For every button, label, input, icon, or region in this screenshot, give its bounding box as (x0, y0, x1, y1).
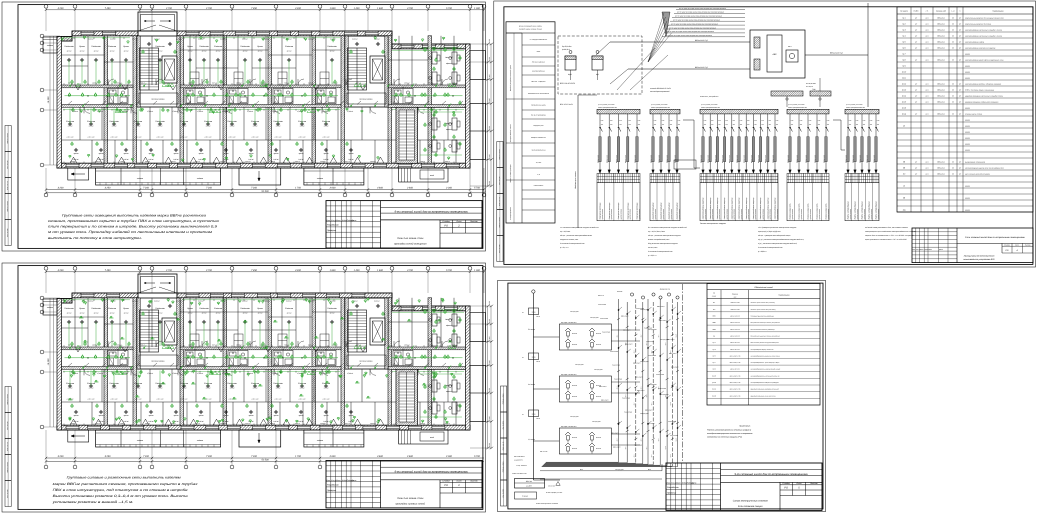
svg-text:ВПЗ-п-кв: ВПЗ-п-кв (598, 295, 604, 297)
svg-text:Лист: Лист (335, 219, 341, 222)
svg-text:Гр 1: Гр 1 (616, 334, 618, 337)
svg-text:линии: линии (711, 296, 716, 298)
svg-text:2,8: 2,8 (401, 87, 404, 89)
feeder cluster C4 (787, 109, 829, 114)
svg-text:ВВГнг 3х2,5: ВВГнг 3х2,5 (666, 155, 668, 163)
svg-text:7 200: 7 200 (143, 455, 149, 458)
svg-text:Электрообогрев квартир этажа №: Электрообогрев квартир этажа №1 (750, 349, 773, 351)
ABP automatic transfer switch U1 (750, 30, 805, 78)
svg-text:1 400: 1 400 (354, 269, 360, 272)
svg-text:Гостиная: Гостиная (64, 307, 74, 310)
commercial entry steps (399, 168, 448, 182)
circuit table C5 (845, 173, 879, 182)
svg-text:выравнивание потенциалов: выравнивание потенциалов (965, 161, 985, 163)
dimension chain right (487, 306, 489, 448)
stair core at 137 (137, 298, 180, 369)
svg-text:ВА47-29: ВА47-29 (596, 344, 601, 346)
svg-text:3 250: 3 250 (105, 187, 111, 190)
stair core at 137 (137, 36, 180, 107)
svg-text:Кухня: Кухня (123, 45, 129, 48)
svg-text:3 250: 3 250 (105, 455, 111, 458)
svg-text:ВВГнг-3х2,5 П16: ВВГнг-3х2,5 П16 (730, 389, 741, 391)
green wiring drops (76, 83, 80, 87)
svg-text:Гр 13: Гр 13 (902, 88, 906, 91)
svg-text:2,80 х 3,20: 2,80 х 3,20 (110, 399, 118, 401)
svg-text:Изм.: Изм. (327, 219, 331, 222)
svg-text:1 000: 1 000 (474, 269, 480, 272)
svg-text:выполнить по потолку в слое шт: выполнить по потолку в слое штукатурки. (48, 236, 142, 240)
svg-text:С16: С16 (791, 120, 794, 122)
svg-text:ВВГнг 3х2,5: ВВГнг 3х2,5 (708, 155, 710, 163)
axis grid left (40, 34, 44, 38)
svg-text:Гр 7: Гр 7 (646, 446, 648, 449)
svg-text:ВВГнг-3х2,5: ВВГнг-3х2,5 (667, 339, 675, 341)
svg-text:марки ВВГнг расчетного сечени: марки ВВГнг расчетного сечения, проложен… (53, 482, 198, 486)
svg-text:лоджия: лоджия (46, 306, 53, 309)
svg-text:N1: N1 (522, 414, 524, 416)
svg-text:Проверил: Проверил (327, 489, 337, 492)
bottom exterior wall with windows (57, 163, 470, 168)
riser floor tap marks (618, 309, 619, 310)
svg-text:С16: С16 (704, 120, 707, 122)
svg-text:51 500: 51 500 (261, 190, 269, 193)
svg-text:Гр 7: Гр 7 (902, 52, 905, 55)
svg-text:2 700: 2 700 (205, 269, 212, 272)
svg-text:2,80 х 3,20: 2,80 х 3,20 (298, 137, 306, 139)
svg-text:кухня: кухня (149, 415, 154, 417)
svg-text:ВВГнг 3х2,5: ВВГнг 3х2,5 (634, 155, 636, 163)
svg-text:ВВГнг-5х10 ГЦ2: ВВГнг-5х10 ГЦ2 (695, 39, 708, 42)
svg-text:Этажные щиты стояка №1 (1-8 эт: Этажные щиты стояка №1 (1-8 этаж) (751, 302, 776, 304)
svg-text:ТхА/В-2 США: ТхА/В-2 США (600, 318, 608, 320)
svg-text:Рн, кВт: Рн, кВт (536, 162, 542, 164)
svg-text:Спальня: Спальня (87, 120, 96, 123)
right balconies (470, 313, 486, 342)
lower annex: porches and loggias (68, 168, 89, 180)
svg-text:ВВГнг 3х2,5: ВВГнг 3х2,5 (658, 155, 660, 163)
partitions upper rooms (74, 298, 76, 347)
svg-text:16А: 16А (870, 124, 872, 126)
svg-text:Гр 15: Гр 15 (902, 100, 906, 103)
vertical riser lines (618, 299, 620, 462)
svg-text:резерв: резерв (964, 149, 970, 151)
sheet frame S1 (2, 2, 486, 251)
svg-text:щитов стояка: щитов стояка (639, 209, 641, 220)
svg-text:кухня: кухня (224, 415, 229, 417)
svg-text:ТхА/В-2 США: ТхА/В-2 США (610, 351, 618, 353)
svg-text:ВВГнг-3х2,5 П16: ВВГнг-3х2,5 П16 (730, 355, 741, 357)
svg-text:Гр 3: Гр 3 (625, 394, 627, 397)
svg-text:2 600: 2 600 (406, 187, 413, 190)
interior bearing walls (104, 298, 108, 425)
svg-text:7 450: 7 450 (105, 269, 111, 272)
svg-text:Спальня: Спальня (87, 382, 96, 385)
long feeder lines to VRU (540, 470, 662, 472)
svg-text:Гостиная: Гостиная (240, 307, 250, 310)
svg-text:2 600: 2 600 (329, 455, 336, 458)
svg-text:2,80 х 3,20: 2,80 х 3,20 (156, 137, 164, 139)
svg-text:2,80 х 3,20: 2,80 х 3,20 (228, 137, 236, 139)
svg-text:Дата: Дата (691, 482, 697, 485)
svg-text:Электрообогреватель промежуточ: Электрообогреватель промежуточной площад (750, 369, 780, 371)
svg-text:ТхА/В-2 США: ТхА/В-2 США (598, 304, 606, 306)
svg-text:Стадия: Стадия (782, 482, 790, 485)
svg-text:Аварийное освещение коридоров: Аварийное освещение коридоров лестничной (750, 389, 779, 391)
svg-text:Спальня: Спальня (285, 45, 294, 48)
svg-text:щитов стояка: щитов стояка (671, 209, 673, 220)
svg-text:резерв: резерв (964, 137, 970, 139)
svg-text:2,80 х 3,20: 2,80 х 3,20 (87, 137, 95, 139)
sheet frame S3 (2, 263, 486, 512)
svg-text:1 000: 1 000 (474, 7, 480, 10)
svg-text:Обозначение линий: Обозначение линий (754, 286, 773, 289)
svg-text:Дата: Дата (938, 249, 943, 251)
svg-text:16А: 16А (662, 124, 664, 126)
lower annex: porches and loggias (68, 430, 89, 442)
svg-text:лоджия: лоджия (136, 439, 143, 442)
svg-text:n: n (960, 11, 961, 13)
svg-text:ВРУ-12-10 УхЛ4: ВРУ-12-10 УхЛ4 (560, 103, 573, 106)
svg-text:16А: 16А (733, 124, 735, 126)
svg-text:5 700: 5 700 (474, 187, 480, 190)
kitchen band line (62, 139, 134, 141)
svg-text:АВВ-5х25 П00: АВВ-5х25 П00 (730, 309, 740, 311)
svg-text:2,80 х 3,20: 2,80 х 3,20 (180, 137, 188, 139)
svg-text:ПВ2 пит. 1-2а[Б] пит.: ПВ2 пит. 1-2а[Б] пит. (531, 81, 546, 83)
svg-text:ВВГнг-3х2,5 П16: ВВГнг-3х2,5 П16 (730, 375, 741, 377)
svg-text:ВВГнг 3х2,5: ВВГнг 3х2,5 (814, 155, 816, 163)
svg-text:Примечание.: Примечание. (739, 425, 751, 428)
svg-text:16А: 16А (863, 124, 865, 126)
svg-text:кухня: кухня (249, 415, 254, 417)
svg-text:Гр 4: Гр 4 (902, 34, 905, 37)
svg-text:Гр 8: Гр 8 (902, 58, 905, 61)
svg-text:ВА47-29: ВА47-29 (572, 333, 577, 335)
svg-text:Гр 4: Гр 4 (641, 334, 643, 337)
svg-text:Автоматические выключатели: Автоматические выключатели (527, 93, 549, 95)
svg-text:Взам. инв. №: Взам. инв. № (7, 181, 9, 190)
svg-text:План 2-го этажа. План: План 2-го этажа. План (397, 237, 424, 240)
svg-text:С16: С16 (870, 120, 873, 122)
svg-text:2,80 х 3,20: 2,80 х 3,20 (251, 399, 259, 401)
svg-text:ВВГнг 3х2,5: ВВГнг 3х2,5 (650, 155, 652, 163)
svg-text:16А: 16А (791, 124, 793, 126)
svg-text:ВВГнг 3х2,5: ВВГнг 3х2,5 (607, 155, 609, 163)
svg-text:Электрообогреватель дверей в п: Электрообогреватель дверей в переоборудо (750, 382, 778, 384)
svg-text:кухня: кухня (199, 415, 204, 417)
right cable journal table (897, 7, 1033, 212)
svg-text:Гр 11: Гр 11 (670, 454, 672, 458)
svg-text:офисн.: офисн. (446, 62, 452, 65)
svg-text:2,80 х 3,20: 2,80 х 3,20 (204, 137, 212, 139)
svg-text:2 700: 2 700 (165, 7, 172, 10)
sheet frame S2 (494, 1, 1036, 267)
svg-text:офисн.: офисн. (446, 390, 452, 393)
svg-text:ВВГнг 3х2,5: ВВГнг 3х2,5 (700, 155, 702, 163)
svg-text:16А: 16А (601, 124, 603, 126)
svg-text:С16: С16 (761, 120, 764, 122)
svg-text:Гр 2в: Гр 2в (902, 112, 906, 115)
svg-text:Распределительный щит этажн. р: Распределительный щит этажн. распределит (751, 322, 781, 324)
svg-text:4 700: 4 700 (407, 269, 413, 272)
svg-text:2,8: 2,8 (193, 87, 196, 89)
svg-text:Лист: Лист (455, 220, 461, 223)
svg-text:Питающий выключатель разводящи: Питающий выключатель разводящих (751, 316, 775, 318)
svg-text:1 800: 1 800 (330, 7, 336, 10)
svg-text:Гр 6: Гр 6 (641, 438, 643, 441)
svg-text:Спальня: Спальня (134, 382, 143, 385)
svg-text:Гр 10: Гр 10 (902, 70, 906, 73)
svg-text:16А: 16А (629, 124, 631, 126)
hall closets upper (190, 72, 199, 85)
svg-text:С16: С16 (809, 120, 812, 122)
svg-text:Гостиная: Гостиная (109, 382, 119, 385)
svg-text:Гр 5: Гр 5 (641, 386, 643, 389)
svg-text:16А: 16А (800, 124, 802, 126)
svg-text:Лестничный выключатель разводя: Лестничный выключатель разводящих (750, 329, 776, 331)
svg-text:2,80 х 3,20: 2,80 х 3,20 (322, 137, 330, 139)
svg-text:Гр 10: Гр 10 (670, 402, 672, 406)
svg-text:План 2-го этажа. План: План 2-го этажа. План (397, 497, 424, 500)
svg-text:2,8: 2,8 (401, 349, 404, 351)
svg-text:С16: С16 (619, 120, 622, 122)
wall tick texture (63, 299, 65, 301)
svg-text:щитов стояка: щитов стояка (655, 209, 657, 220)
svg-text:2 секц. питания: 2 секц. питания (515, 465, 527, 467)
circuit table C1 (597, 173, 640, 182)
svg-text:резерв: резерв (964, 77, 970, 79)
svg-text:16А: 16А (619, 124, 621, 126)
bathroom pods (108, 351, 128, 366)
svg-text:4 600: 4 600 (377, 187, 383, 190)
svg-text:лоджия: лоджия (136, 177, 143, 180)
svg-text:16А: 16А (776, 124, 778, 126)
hall closets upper (190, 334, 199, 347)
svg-text:ТхА/В-2 США: ТхА/В-2 США (624, 411, 632, 413)
svg-text:ВВГнг-3х4 П25: ВВГнг-3х4 П25 (730, 342, 740, 344)
svg-text:ТхА/В-2 США: ТхА/В-2 США (634, 444, 642, 446)
svg-text:Гр 9: Гр 9 (658, 438, 660, 441)
svg-text:Гр 9: Гр 9 (902, 64, 905, 67)
svg-text:ПВХ в слое штукатурки, под пли: ПВХ в слое штукатурки, под плинтусом и п… (53, 488, 188, 492)
axis grid top (46, 9, 484, 11)
dimension line bottom (46, 189, 484, 191)
svg-text:2,80 х 3,20: 2,80 х 3,20 (322, 399, 330, 401)
svg-text:офисн.: офисн. (446, 128, 452, 131)
svg-text:ВВГнг-3х2,5: ВВГнг-3х2,5 (625, 343, 633, 345)
svg-text:Разработал: Разработал (327, 484, 340, 487)
svg-text:ул 1.1 у1,3хч1 уч1 1х10А: ул 1.1 у1,3хч1 уч1 1х10А (787, 104, 804, 106)
svg-text:16А: 16А (654, 124, 656, 126)
svg-text:ПВ1-1(3)-Ц1В: ПВ1-1(3)-Ц1В (660, 394, 669, 396)
svg-text:Спальня: Спальня (180, 382, 189, 385)
feeder cluster C5 (845, 109, 879, 114)
svg-text:ТнхА/В-220 ВВГнг-3х6: ТнхА/В-220 ВВГнг-3х6 (512, 473, 527, 475)
svg-text:4 200: 4 200 (58, 7, 64, 10)
svg-text:Гостиная: Гостиная (273, 382, 283, 385)
sheet frame S4 (498, 281, 826, 512)
svg-text:2,8: 2,8 (116, 349, 119, 351)
svg-text:ПВ1-1(3)-Ц1В: ПВ1-1(3)-Ц1В (615, 469, 624, 471)
svg-text:Проверил: Проверил (327, 229, 337, 232)
svg-text:7 200: 7 200 (251, 455, 257, 458)
svg-text:Гр 7: Гр 7 (658, 334, 660, 337)
left exterior wall (57, 37, 62, 169)
svg-text:2 700: 2 700 (205, 7, 212, 10)
svg-text:щитов стояка: щитов стояка (679, 209, 681, 220)
top wall left lower step (57, 37, 72, 42)
svg-text:Гр 16: Гр 16 (902, 106, 906, 109)
svg-text:4 200: 4 200 (58, 269, 64, 272)
svg-text:ВВГнг-3х2,5: ВВГнг-3х2,5 (611, 433, 619, 435)
svg-text:Групповые силовые и розеточные: Групповые силовые и розеточные сети выпо… (67, 476, 182, 480)
svg-text:7 200: 7 200 (206, 187, 212, 190)
entrance canopy over stair core A (138, 274, 177, 293)
svg-text:1 700: 1 700 (295, 455, 301, 458)
svg-text:ВВГнг 3х2,5: ВВГнг 3х2,5 (873, 155, 875, 163)
svg-text:ВА47-29: ВА47-29 (572, 396, 577, 398)
svg-text:С16: С16 (711, 120, 714, 122)
svg-text:С16: С16 (818, 120, 821, 122)
commercial section top wall (392, 306, 470, 311)
svg-text:Гостиная: Гостиная (155, 45, 165, 48)
svg-text:Гр 8: Гр 8 (651, 454, 653, 457)
svg-text:ТхА/В-2 США: ТхА/В-2 США (648, 355, 656, 357)
svg-text:прокладки силовых сетей: прокладки силовых сетей (395, 503, 425, 506)
svg-text:кухня: кухня (199, 153, 204, 155)
stair core at 345 (345, 36, 388, 107)
svg-text:Дата: Дата (351, 479, 357, 482)
svg-text:1 600: 1 600 (377, 7, 383, 10)
svg-text:лоджия: лоджия (316, 177, 323, 180)
svg-text:Расчет электрических нагрузок: Расчет электрических нагрузок (700, 222, 726, 225)
svg-text:Гр 5: Гр 5 (902, 40, 905, 43)
svg-text:Спальня: Спальня (108, 45, 117, 48)
svg-text:резерв: резерв (964, 197, 970, 199)
svg-text:ПВ1-1(3)-Ц1В: ПВ1-1(3)-Ц1В (570, 311, 579, 313)
svg-text:Электрообогреватель лестничной: Электрообогреватель лестничной клетки эт (750, 375, 780, 377)
svg-text:2 000: 2 000 (445, 187, 452, 190)
svg-text:Кухня: Кухня (187, 307, 193, 310)
svg-text:16А: 16А (769, 124, 771, 126)
svg-text:7 200: 7 200 (251, 187, 257, 190)
svg-text:Гостиная: Гостиная (327, 307, 337, 310)
svg-text:9-ти этажный жилой дом со встр: 9-ти этажный жилой дом со встроенными по… (394, 211, 468, 214)
svg-text:Спальня: Спальня (66, 382, 75, 385)
svg-text:9-ти этажная секция: 9-ти этажная секция (738, 505, 763, 508)
svg-text:Гр 12: Гр 12 (675, 438, 677, 442)
svg-text:16А: 16А (711, 124, 713, 126)
svg-text:Гр 8: Гр 8 (665, 342, 667, 345)
svg-text:16А: 16А (849, 124, 851, 126)
svg-text:С16: С16 (654, 120, 657, 122)
title block at 326,200.6 (326, 201, 482, 248)
svg-text:щитов стояка: щитов стояка (602, 209, 604, 220)
svg-text:мусорная камера: мусорная камера (152, 99, 165, 101)
svg-text:Аварийное освещение холла чере: Аварийное освещение холла через этаж (750, 395, 776, 397)
partitions upper rooms (74, 36, 76, 85)
svg-text:Высота установки розеток 0,3–0: Высота установки розеток 0,3–0,4 м от ур… (53, 494, 188, 498)
svg-text:Гостиная: Гостиная (199, 307, 209, 310)
svg-text:2 700: 2 700 (165, 269, 172, 272)
svg-text:2,80 х 3,20: 2,80 х 3,20 (298, 399, 306, 401)
svg-text:16А: 16А (670, 124, 672, 126)
svg-text:Штепсельные розетки дежурного: Штепсельные розетки дежурного освещения (751, 342, 780, 344)
svg-text:ВВГнг 3х2,5: ВВГнг 3х2,5 (859, 155, 861, 163)
distribution buses top right (771, 91, 803, 96)
bottom collector and meters (546, 461, 619, 463)
svg-text:ВА47-29: ВА47-29 (596, 448, 601, 450)
svg-text:ТхА/В-2 США: ТхА/В-2 США (670, 435, 678, 437)
svg-text:Гр 11: Гр 11 (902, 76, 906, 79)
svg-text:Гр 10: Гр 10 (675, 334, 677, 338)
svg-text:С16: С16 (849, 120, 852, 122)
svg-text:ВВГнг 3х2,5: ВВГнг 3х2,5 (845, 155, 847, 163)
svg-text:Принципиальная электрическая: Принципиальная электрическая (964, 255, 996, 258)
svg-text:Гр 2: Гр 2 (616, 386, 618, 389)
svg-text:резерв: резерв (964, 185, 970, 187)
svg-text:ВВГнг 3х2,5: ВВГнг 3х2,5 (736, 155, 738, 163)
interior doors (84, 107, 90, 113)
svg-text:ВВГнг 3х2,5: ВВГнг 3х2,5 (866, 155, 868, 163)
svg-text:Гр 3: Гр 3 (902, 28, 905, 31)
svg-text:9-ти этажный жилой дом со встр: 9-ти этажный жилой дом со встроенными по… (734, 473, 808, 476)
svg-text:16А: 16А (877, 124, 879, 126)
svg-text:ВВГнг 3х2,5: ВВГнг 3х2,5 (674, 155, 676, 163)
svg-text:кухня: кухня (224, 153, 229, 155)
svg-text:16А: 16А (747, 124, 749, 126)
svg-text:ВВГнг-5х10 ГЦ2: ВВГнг-5х10 ГЦ2 (695, 66, 708, 69)
svg-text:Гр 4: Гр 4 (634, 402, 636, 405)
svg-text:ул 1.1 у1,3хч1 уч1 1х10А: ул 1.1 у1,3хч1 уч1 1х10А (650, 104, 667, 106)
svg-text:ТхА/В-2 США: ТхА/В-2 США (656, 374, 664, 376)
svg-text:ТхА/В-2 США: ТхА/В-2 США (614, 378, 622, 380)
svg-text:Гр 2: Гр 2 (902, 22, 905, 25)
svg-text:Гр 14: Гр 14 (902, 94, 906, 97)
svg-text:1 800: 1 800 (330, 269, 336, 272)
svg-text:С16: С16 (754, 120, 757, 122)
svg-text:16А: 16А (718, 124, 720, 126)
svg-text:Вводная цепь стояка: Вводная цепь стояка (574, 171, 577, 188)
svg-text:9-ти этажный жилой дом со встр: 9-ти этажный жилой дом со встроенными по… (394, 471, 468, 474)
svg-text:Гр 5: Гр 5 (634, 454, 636, 457)
svg-text:кухня: кухня (274, 153, 279, 155)
svg-text:ПВ1 пит. 1а[Б] пит.: ПВ1 пит. 1а[Б] пит. (532, 62, 546, 64)
svg-text:Взам. инв. №: Взам. инв. № (7, 442, 9, 451)
svg-text:Гр 4: Гр 4 (625, 446, 627, 449)
feeder cluster C1 (597, 109, 640, 114)
svg-text:резерв: резерв (964, 107, 970, 109)
svg-text:С16: С16 (670, 120, 673, 122)
svg-text:2,80 х 3,20: 2,80 х 3,20 (134, 399, 142, 401)
margin stamp boxes S2 (497, 236, 503, 262)
svg-text:Стадия: Стадия (442, 220, 450, 223)
svg-text:15 200: 15 200 (47, 96, 50, 103)
svg-text:Кухня: Кухня (257, 45, 263, 48)
svg-text:Разработал: Разработал (327, 224, 340, 227)
svg-text:2,80 х 3,20: 2,80 х 3,20 (180, 399, 188, 401)
svg-text:Гостиная: Гостиная (240, 45, 250, 48)
svg-text:ВВГнг-3х4 П25: ВВГнг-3х4 П25 (730, 369, 740, 371)
svg-text:кухня: кухня (99, 415, 104, 417)
svg-text:ВА47-29: ВА47-29 (596, 396, 601, 398)
svg-text:Взам. инв. №: Взам. инв. № (499, 197, 501, 206)
svg-text:РО: РО (444, 224, 448, 227)
svg-text:Кухня: Кухня (79, 45, 85, 48)
commercial section offices (392, 368, 466, 370)
svg-text:УЗО-Ф: УЗО-Ф (536, 361, 540, 363)
svg-text:плит перекрытия и по стенам в: плит перекрытия и по стенам в штробе. Вы… (48, 225, 217, 229)
